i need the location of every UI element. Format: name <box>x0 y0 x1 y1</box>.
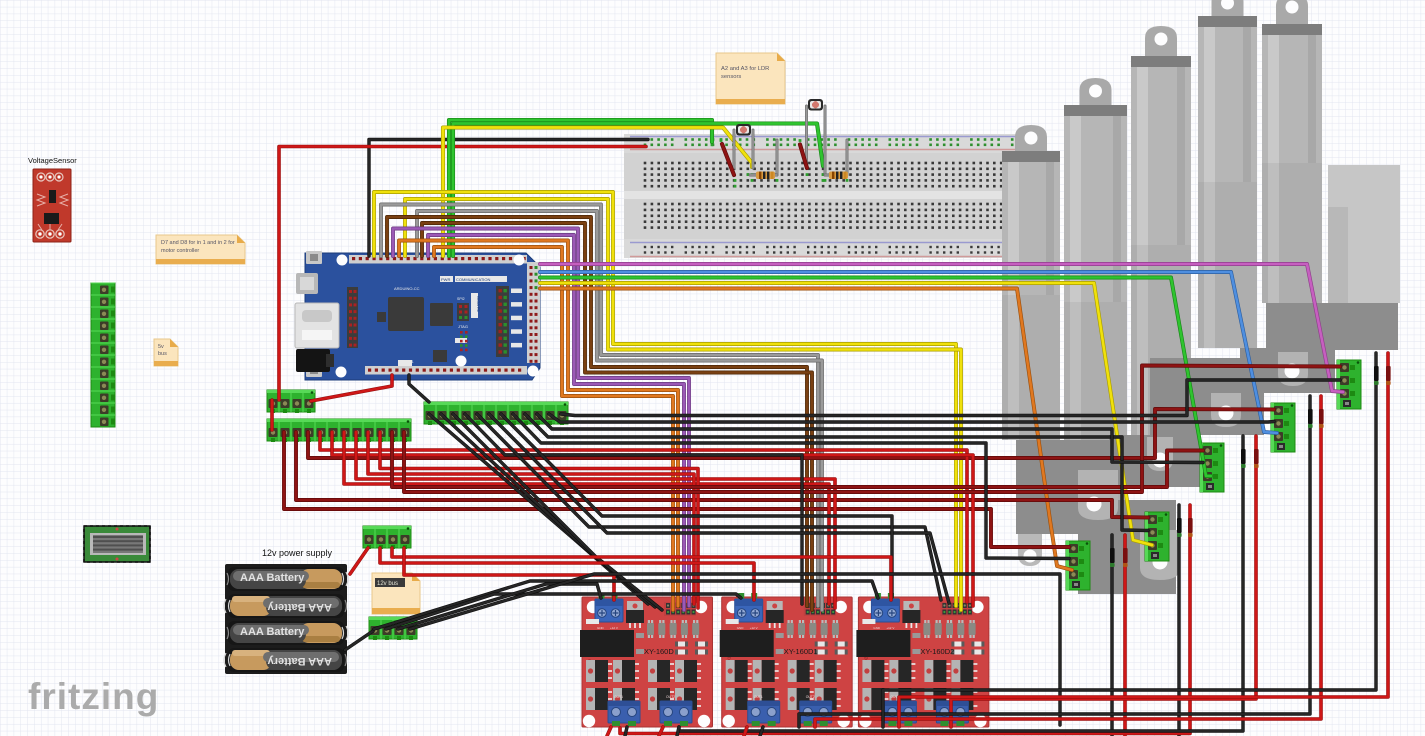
wire red arduino 5v to block A <box>311 375 392 401</box>
wire black fan to driver 1 header a <box>429 414 648 604</box>
wire black gnd bus to driver 1 <box>398 584 601 629</box>
actuator 5 motor housing <box>1266 303 1398 350</box>
breadboard top power rail lines <box>630 136 1016 138</box>
XY-160D2 sot23 transistors <box>923 623 930 635</box>
red jumper J2 on breadboard <box>800 145 807 169</box>
svg-text:GIGA R1: GIGA R1 <box>476 296 481 313</box>
wire brown arc 2 to driver 2 header <box>422 223 812 610</box>
svg-text:bus: bus <box>158 351 167 357</box>
svg-text:XY-160D: XY-160D <box>644 647 674 656</box>
actuator 1 bottom eye tab <box>1018 534 1042 566</box>
XY-160D1 dir label box <box>726 619 739 624</box>
terminal block C (12-pin) <box>424 402 568 424</box>
wire black fan to T5 <box>561 380 1340 416</box>
actuator 3 power leads <box>679 436 1243 731</box>
photoresistor LDR1 leads <box>733 130 736 168</box>
wire black gnd bus to driver 2 <box>386 594 741 629</box>
linear actuator A1 tube <box>1015 125 1047 151</box>
screw terminal strip 12x vertical <box>91 283 115 427</box>
breadboard main holes <box>644 162 1016 229</box>
svg-text:XY-160D1: XY-160D1 <box>784 647 818 656</box>
wire black fan to T1 <box>513 414 1069 559</box>
wire gray arc 2 to driver 2 header <box>417 211 822 610</box>
battery cell AAA <box>228 648 344 672</box>
wire black arduino gnd to block C <box>409 375 429 402</box>
wire yellow arc 2 to driver 3 header <box>405 199 961 610</box>
wire red 5v fan to driver 2 header a <box>344 432 829 604</box>
actuator 6 partial right block <box>1328 165 1400 303</box>
wire black fan to driver 1 header c <box>453 414 662 610</box>
svg-text:GND: GND <box>873 626 881 630</box>
wire green A3 to breadboard <box>453 124 823 257</box>
actuator 1 motor housing <box>1016 440 1114 534</box>
XY-160D sot23 transistors <box>647 623 654 635</box>
svg-text:JTAG: JTAG <box>458 324 468 329</box>
XY-160D2 dir label box <box>862 619 875 624</box>
XY-160D1 VIN screw terminal <box>738 593 744 600</box>
terminal block E gnd bus (4-pin) <box>369 617 417 639</box>
wire yellow arc to driver 3 header <box>374 192 956 606</box>
XY-160D2 control header <box>940 602 972 616</box>
sticky note <box>156 235 245 264</box>
wire black fan to T4 <box>549 414 1274 422</box>
svg-text:XY-160D2: XY-160D2 <box>920 647 954 656</box>
wire magenta arduino to T5 <box>540 264 1343 392</box>
photoresistor LDR2 <box>808 99 823 111</box>
terminal block T4 (3-pin) <box>1271 403 1295 452</box>
linear actuator A4 tube <box>1212 0 1244 16</box>
wire purple arc 2 to driver 1 header <box>428 235 684 610</box>
breadboard green connected holes <box>711 138 849 188</box>
svg-text:COMMUNICATION: COMMUNICATION <box>456 277 490 282</box>
breadboard bottom power rail lines <box>630 242 1016 244</box>
motor driver XY-160D <box>582 597 713 727</box>
wire red 5v fan to T4 <box>308 409 1274 458</box>
XY-160D1 sot23 transistors <box>787 623 794 635</box>
wire red 5v fan to driver 3 header a <box>320 432 967 602</box>
svg-text:+12 V: +12 V <box>886 626 894 630</box>
terminal block T3 (3-pin) <box>1200 443 1224 492</box>
wire black fan to driver 1 header b <box>441 414 655 607</box>
svg-text:GND: GND <box>597 626 605 630</box>
wire red 5v fan to driver 1 header b <box>380 432 698 608</box>
motor driver XY-160D1 <box>722 597 853 727</box>
svg-text:motor controller: motor controller <box>161 248 199 254</box>
svg-text:+12 V: +12 V <box>610 626 618 630</box>
battery cell AAA <box>228 567 344 591</box>
driver 1 output stub wires <box>607 727 611 736</box>
resistor R2 <box>829 172 848 180</box>
XY-160D1 voltage regulator <box>767 601 783 611</box>
wire green A2 to breadboard <box>449 120 712 256</box>
wire red 5v fan to driver 2 header b <box>356 432 835 608</box>
wire black fan to T3 <box>537 414 1203 463</box>
arduino corner fiducials <box>306 251 322 264</box>
svg-text:sensors: sensors <box>721 74 741 80</box>
arduino mcu chips <box>388 297 424 331</box>
power lead sleeves <box>1110 548 1115 563</box>
wire blue arduino to T4 <box>540 272 1277 433</box>
arduino spi header <box>457 303 469 321</box>
linear actuator A3 tube <box>1145 26 1177 56</box>
XY-160D2 voltage regulator <box>903 601 919 611</box>
photoresistor LDR2 leads <box>805 106 808 168</box>
arduino mounting holes <box>337 255 348 266</box>
terminal block T5 (3-pin) <box>1337 360 1361 409</box>
wire red 5v fan to driver 1 header a <box>368 432 694 604</box>
actuator 3 motor housing <box>1109 435 1200 487</box>
wire black fan to driver 2 header <box>465 414 802 604</box>
wire orange arc 2 to driver 1 header <box>434 247 673 610</box>
svg-text:AAA Battery: AAA Battery <box>240 626 305 638</box>
wire red 5v fan to driver 3 header b <box>332 432 973 606</box>
wire red battery to 12v bus block <box>350 548 368 574</box>
XY-160D smd resistors <box>675 642 688 647</box>
svg-text:PWR: PWR <box>441 277 450 282</box>
arduino bottom pin header <box>365 366 527 375</box>
terminal block D 12v bus (4-pin) <box>363 526 411 548</box>
wire red 5v fan to T1 <box>284 432 1069 547</box>
resistor R1 lead <box>776 140 779 175</box>
wire red 5v fan to T3 <box>392 432 1203 487</box>
XY-160D2 mosfets <box>862 660 871 682</box>
wire black fan to driver 3 vin gnd <box>501 414 892 597</box>
svg-text:OUT2: OUT2 <box>666 695 675 699</box>
sticky note <box>716 53 785 104</box>
arduino power jack <box>296 349 330 372</box>
svg-text:VoltageSensor: VoltageSensor <box>28 156 77 165</box>
wire red block A to block B <box>270 400 274 430</box>
svg-text:OUT2: OUT2 <box>806 695 815 699</box>
XY-160D mosfets <box>586 660 595 682</box>
driver 2 output stub wires <box>744 727 747 736</box>
svg-text:SPI2: SPI2 <box>457 297 465 301</box>
wire black fan to driver 3 header a <box>477 414 941 600</box>
arduino left dual header <box>347 287 358 348</box>
breadboard <box>624 134 1022 258</box>
svg-text:12v power supply: 12v power supply <box>262 548 333 558</box>
svg-text:ARDUINO-CC: ARDUINO-CC <box>394 286 420 291</box>
wire black gnd bus to driver 3 <box>374 581 878 629</box>
terminal block A (4-pin) <box>267 390 315 412</box>
wire orange arc to driver 1 header <box>399 241 678 607</box>
svg-text:12v bus: 12v bus <box>377 581 398 587</box>
terminal block T1 (3-pin) <box>1066 541 1090 590</box>
svg-text:+12 V: +12 V <box>750 626 758 630</box>
wire yellow arduino to T2 <box>540 283 1152 545</box>
XY-160D logic ic <box>580 630 634 657</box>
XY-160D2 VIN screw terminal <box>875 593 881 600</box>
svg-text:GND: GND <box>737 626 745 630</box>
wire green arduino to T3 <box>540 278 1211 477</box>
wire red 5v fan to T5 <box>404 366 1340 493</box>
wire purple arc to driver 1 header <box>393 229 689 607</box>
wire black fan to T2 <box>525 414 1148 531</box>
svg-text:OUT1: OUT1 <box>614 695 623 699</box>
resistor R1 <box>756 172 775 180</box>
terminal block B (12-pin) <box>267 419 411 441</box>
XY-160D control header <box>664 602 696 616</box>
svg-text:AAA Battery: AAA Battery <box>267 655 332 667</box>
wire red block A to breadboard rail <box>279 147 646 401</box>
XY-160D dir label box <box>586 619 599 624</box>
breadboard power rail holes <box>644 138 1014 146</box>
wire red 12v bus to driver 1 vin <box>404 548 614 600</box>
battery cell AAA <box>228 621 344 645</box>
resistor R2 lead <box>846 140 849 175</box>
wire yellow to breadboard <box>443 128 752 257</box>
linear actuator A5 tube <box>1276 0 1308 24</box>
actuator 4 power leads <box>799 396 1310 727</box>
actuator 2 power leads <box>1177 505 1180 736</box>
XY-160D1 control header <box>804 602 836 616</box>
motor driver XY-160D2 <box>858 597 989 727</box>
XY-160D1 logic ic <box>720 630 774 657</box>
arduino rj45 connector <box>295 303 339 348</box>
wire red 12v bus to driver 3 vin <box>392 548 891 600</box>
battery cell AAA <box>228 594 344 618</box>
actuator 4 motor housing <box>1150 358 1264 435</box>
XY-160D voltage regulator <box>627 601 643 611</box>
red jumper J1 on breadboard <box>722 144 734 175</box>
arduino right header <box>527 262 540 363</box>
XY-160D1 mosfets <box>726 660 735 682</box>
XY-160D VIN screw terminal <box>599 593 605 600</box>
wire black arduino to breadboard rail <box>369 140 648 257</box>
photoresistor LDR1 <box>736 124 751 136</box>
arduino right dual header <box>496 286 509 357</box>
sticky note <box>154 339 178 366</box>
wire black battery to gnd bus block <box>345 631 373 650</box>
svg-text:AAA Battery: AAA Battery <box>240 572 305 584</box>
svg-text:D7 and D8 for in 1 and in 2 fo: D7 and D8 for in 1 and in 2 for <box>161 240 235 246</box>
svg-text:AAA Battery: AAA Battery <box>267 601 332 613</box>
wire gray arc to driver 2 header <box>381 205 818 607</box>
linear actuator A2 tube <box>1080 78 1112 105</box>
arduino top pin header <box>349 255 527 264</box>
wire black gnd bus long <box>410 574 1060 725</box>
sticky note 12v bus <box>372 573 420 614</box>
wire red 12v bus to driver 2 vin <box>380 548 754 600</box>
XY-160D2 smd resistors <box>951 642 964 647</box>
actuator 5 power leads <box>883 353 1376 727</box>
connector module green pcb <box>84 526 150 562</box>
arduino usb connector <box>296 273 318 294</box>
svg-text:5v: 5v <box>158 344 164 350</box>
XY-160D2 logic ic <box>856 630 910 657</box>
wire red 5v fan to T2 <box>296 432 1148 518</box>
wire orange arduino to T1 <box>540 289 1072 571</box>
actuator 1 power leads <box>1110 535 1113 736</box>
wire brown arc to driver 2 header <box>387 217 807 606</box>
actuator 2 motor housing <box>1078 500 1176 594</box>
svg-text:fritzing: fritzing <box>28 676 159 717</box>
svg-text:OUT1: OUT1 <box>754 695 763 699</box>
wire black fan to driver 3 header b <box>489 414 949 603</box>
XY-160D1 smd resistors <box>815 642 828 647</box>
svg-text:A2 and A3 for LDR: A2 and A3 for LDR <box>721 66 769 72</box>
terminal block T2 (3-pin) <box>1145 512 1169 561</box>
Arduino GIGA R1 board <box>305 253 540 380</box>
